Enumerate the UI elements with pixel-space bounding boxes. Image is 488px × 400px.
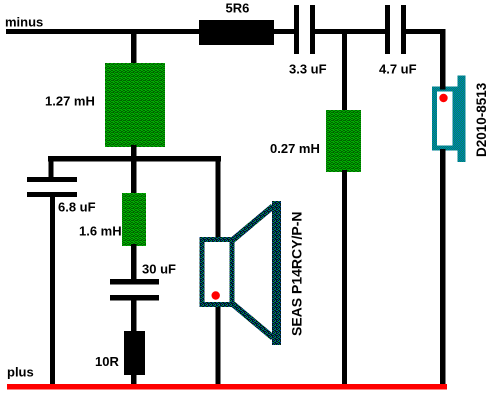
capacitor C2 4.7 uF plates [385, 5, 406, 54]
wire left outer vertical from 6.8uF to plus bus [50, 197, 55, 387]
svg-text:plus: plus [7, 365, 34, 380]
capacitor C1 3.3 uF plates [294, 5, 315, 54]
svg-text:SEAS P14RCY/P-N: SEAS P14RCY/P-N [289, 212, 305, 336]
label 1.6 mH [79, 224, 122, 239]
speaker SP2 tweeter body [432, 87, 458, 151]
svg-text:3.3 uF: 3.3 uF [289, 62, 327, 77]
label 30 uF [142, 262, 176, 277]
label 3.3 uF [289, 62, 327, 77]
wire from 30uF to R2 [131, 300, 137, 333]
wire top horizontal segment between 3.3uF and 4.7uF [315, 29, 385, 34]
speaker SP1 cone diagonals [231, 204, 275, 340]
label D2010-8513 [474, 82, 488, 157]
wire woofer branch vertical from speaker to plus bus [216, 302, 221, 387]
wire middle branch vertical from top junction to L3 [342, 34, 347, 112]
label 0.27 mH [270, 141, 320, 156]
svg-text:minus: minus [5, 15, 43, 30]
node minus label [5, 15, 43, 30]
label 5R6 [226, 1, 250, 16]
wire right branch vertical from tweeter to plus bus [440, 149, 446, 387]
resistor R1 5R6 [199, 20, 274, 45]
label SEAS P14RCY/P-N [289, 212, 305, 336]
svg-text:D2010-8513: D2010-8513 [474, 82, 488, 157]
inductor L3 0.27 mH [326, 110, 361, 172]
speaker SP2 rear bar [458, 76, 466, 163]
inductor L1 1.27 mH [105, 63, 165, 147]
speaker SP1 SEAS woofer body [200, 237, 235, 307]
resistor R2 10R [124, 331, 145, 375]
label 1.27 mH [45, 94, 95, 109]
label 4.7 uF [379, 62, 417, 77]
svg-text:0.27 mH: 0.27 mH [270, 141, 320, 156]
wire woofer branch vertical from bus to speaker [216, 156, 221, 242]
wire left branch vertical from top bus to L1 [131, 34, 137, 65]
wire top horizontal segment from 4.7uF to right corner [406, 29, 446, 34]
label 10R [95, 354, 119, 369]
wire horizontal bus below L1 [48, 156, 221, 162]
inductor L2 1.6 mH [122, 193, 146, 246]
svg-text:4.7 uF: 4.7 uF [379, 62, 417, 77]
node plus label [7, 365, 34, 380]
svg-text:1.27 mH: 1.27 mH [45, 94, 95, 109]
wire top horizontal segment left (minus bus to 3.3uF left plate) [6, 29, 294, 34]
wire plus bus red [7, 384, 447, 390]
wire from L2 to 30uF [131, 244, 137, 279]
speaker SP1 terminal red dot [212, 291, 220, 299]
svg-text:5R6: 5R6 [226, 1, 250, 16]
label 6.8 uF [58, 200, 96, 215]
wire 6.8uF branch vertical from bus to top plate [49, 156, 54, 177]
capacitor C4 30 uF plates [110, 279, 159, 301]
wire from R2 to plus bus [131, 373, 137, 387]
wire middle branch vertical from L3 to plus bus [342, 170, 347, 387]
speaker SP2 terminal red dot [439, 94, 447, 102]
capacitor C3 6.8 uF plates [27, 177, 77, 197]
speaker SP1 cone front bar [272, 201, 281, 345]
wire left branch vertical from L1 to L2 [131, 145, 137, 195]
svg-text:30 uF: 30 uF [142, 262, 176, 277]
svg-text:1.6 mH: 1.6 mH [79, 224, 122, 239]
svg-text:6.8 uF: 6.8 uF [58, 200, 96, 215]
wire right branch vertical from top corner into tweeter [440, 29, 446, 90]
svg-text:10R: 10R [95, 354, 119, 369]
